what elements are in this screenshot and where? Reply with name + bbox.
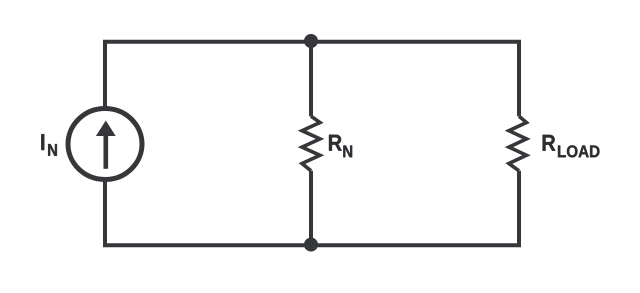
node junction dot top — [304, 34, 318, 48]
current source IN circle — [68, 109, 142, 180]
wire: middle branch upper segment — [309, 42, 313, 116]
label IN subscript (N of IN) — [48, 144, 57, 156]
resistor RN zigzag — [302, 116, 320, 171]
wire: bottom rail with left and right verticals — [105, 171, 519, 245]
resistor RLOAD zigzag — [509, 116, 527, 171]
current source arrowhead — [96, 121, 116, 137]
label RN subscript (N of RN) — [343, 146, 352, 158]
wire: middle branch lower segment — [309, 171, 313, 245]
label RN main (R of RN) — [329, 135, 342, 151]
current source arrow shaft — [103, 134, 108, 169]
label IN main (I of IN) — [41, 134, 44, 150]
wire: top rail with left and right verticals — [105, 42, 519, 116]
label RLOAD main (R of RLOAD) — [543, 135, 556, 151]
label RLOAD subscript (LOAD of RLOAD) — [558, 145, 599, 157]
node junction dot bottom — [304, 238, 318, 252]
